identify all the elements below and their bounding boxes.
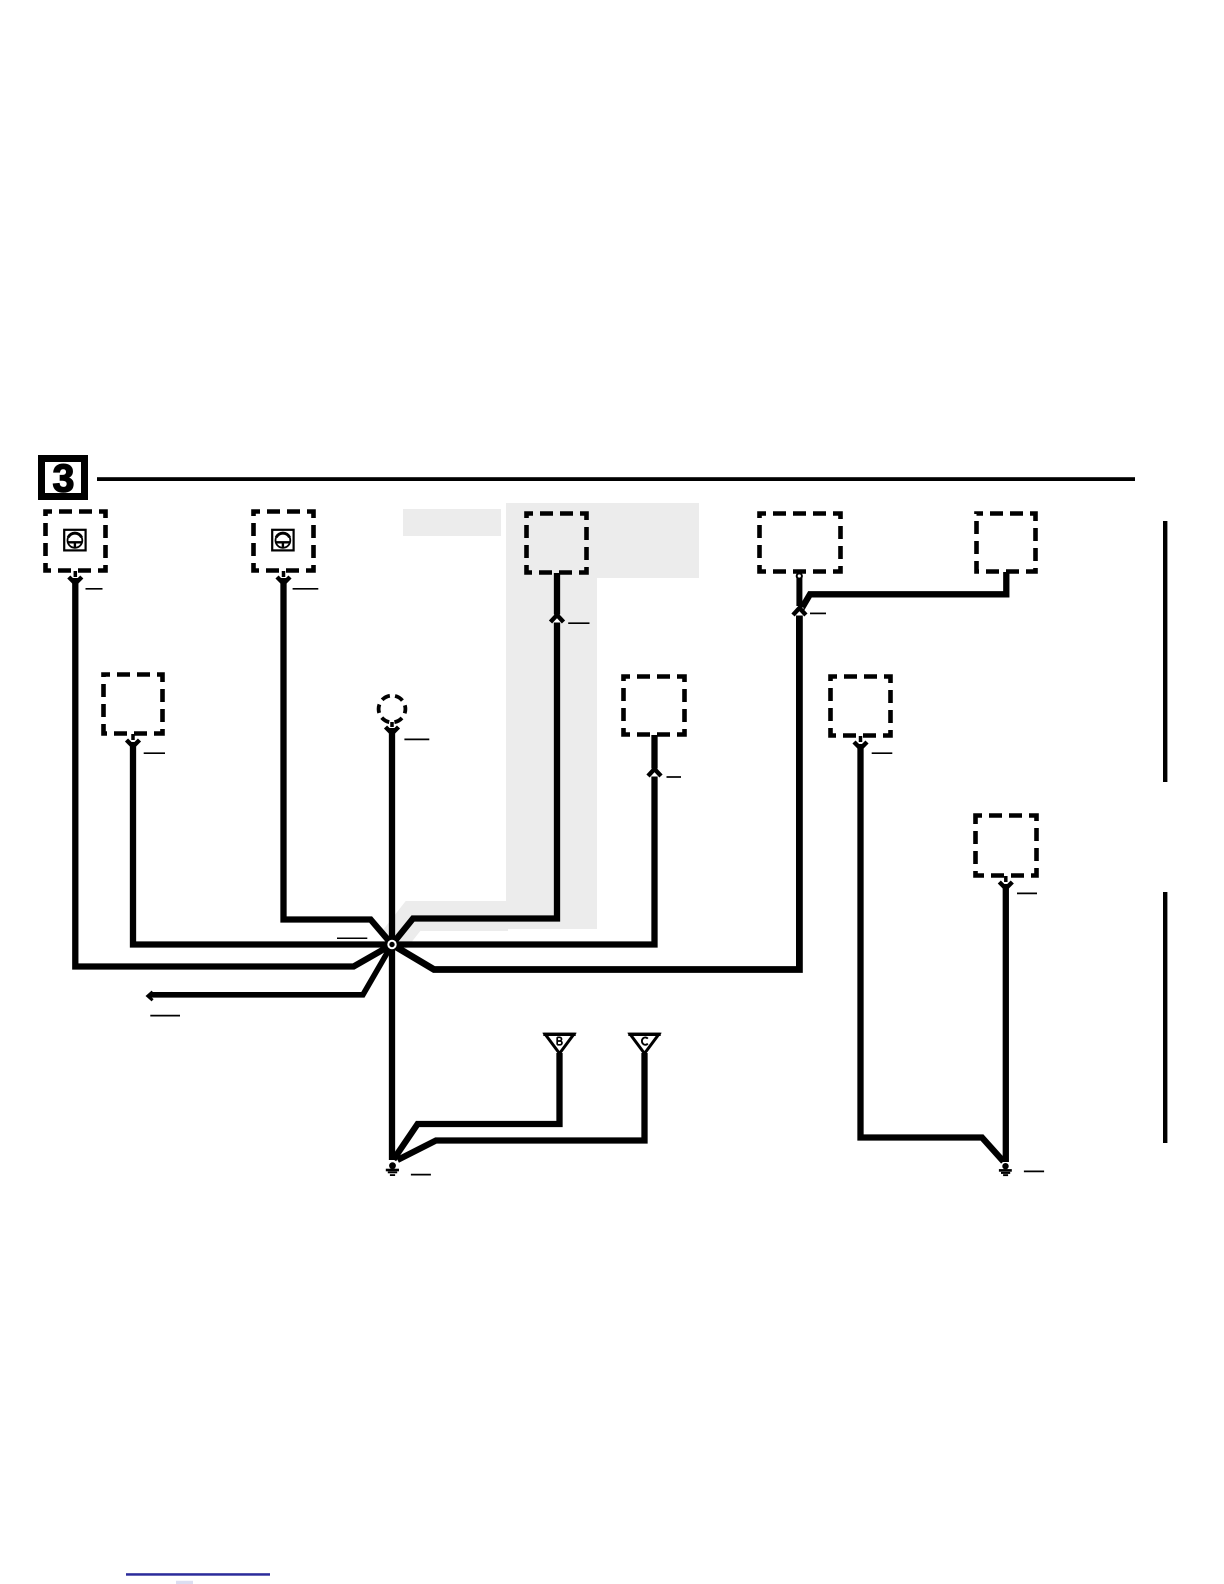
arrow up on wire W7 bbox=[648, 769, 661, 787]
wire W4 from splice S1 up to connector circle bbox=[389, 728, 395, 945]
connector X8 bbox=[831, 677, 891, 736]
wire W1 from connector X1 to splice bbox=[75, 578, 392, 967]
wire label dash at W7 arrow bbox=[667, 776, 682, 778]
wire label dash at X1 bbox=[86, 588, 103, 590]
wire W11 splice to ground G1 bbox=[389, 945, 395, 1161]
wire label dash at circle connector bbox=[404, 738, 429, 740]
wire label dash at ground G2 bbox=[1024, 1170, 1044, 1172]
faint footer text remnant bbox=[176, 1581, 193, 1584]
connector X5 bbox=[977, 514, 1036, 572]
connector X4 bbox=[760, 514, 841, 572]
wire label dash at splice S1 bbox=[337, 937, 367, 939]
connector X1 (steering wheel module) bbox=[46, 512, 106, 571]
page number box 3 bbox=[42, 458, 85, 501]
wire W2 from connector X2 to splice bbox=[284, 578, 393, 945]
wire W6 splice to connector X3 bbox=[392, 573, 557, 945]
section marker bar right bottom bbox=[1163, 892, 1167, 1143]
splice S1 junction dot bbox=[387, 940, 396, 949]
arrow up at node A bbox=[793, 608, 806, 626]
wire W3 from connector X6 to splice bbox=[133, 742, 390, 945]
highlight band (gray watermark path) bbox=[391, 503, 699, 944]
wire W14 connector X8 to ground G2 bbox=[861, 744, 1004, 1162]
arrow up on wire W6 bbox=[551, 615, 564, 633]
footer blue rule bbox=[126, 1573, 270, 1576]
wire W15 connector X9 to ground G2 bbox=[1003, 884, 1009, 1162]
svg-text:3: 3 bbox=[53, 458, 75, 501]
header rule bbox=[97, 477, 1135, 481]
triangle B bbox=[543, 1034, 575, 1053]
wire label dash at X9 bbox=[1017, 892, 1037, 894]
connector X7 bbox=[624, 677, 685, 735]
ground G2 bbox=[999, 1163, 1012, 1176]
wire W5 with left arrow to splice bbox=[150, 945, 392, 995]
connector X2 (steering wheel module) bbox=[254, 512, 314, 571]
wire label dash at ground G1 bbox=[411, 1174, 431, 1176]
triangle C bbox=[628, 1034, 660, 1053]
wire label dash at X2 bbox=[293, 588, 319, 590]
connector X9 bbox=[976, 816, 1037, 876]
arrow down below connector X8 bbox=[854, 736, 867, 749]
arrow down below connector X1 bbox=[69, 571, 82, 584]
wire W13 triangle C to ground G1 bbox=[398, 1053, 645, 1160]
connector X3 bbox=[527, 514, 587, 573]
pin dot at connector X4 bbox=[797, 573, 802, 578]
arrow down below connector X6 bbox=[127, 734, 140, 747]
section marker bar right top bbox=[1163, 521, 1167, 782]
wire W8 splice to node A bbox=[392, 614, 799, 970]
wire W12 triangle B to ground G1 bbox=[394, 1053, 560, 1160]
arrow down below connector X9 bbox=[999, 876, 1012, 889]
wire label dash at X6 bbox=[144, 752, 165, 754]
arrow down below connector X2 bbox=[277, 571, 290, 584]
connector X6 bbox=[104, 675, 163, 734]
wire label dash at W5 arrow bbox=[150, 1015, 180, 1017]
wire W7 splice to connector X7 bbox=[392, 735, 655, 945]
connector circle (bulb socket) bbox=[379, 696, 406, 723]
arrow head left on W5 bbox=[148, 992, 153, 1000]
wire W9 stub from connector X4 bbox=[796, 577, 802, 606]
arrow down below connector circle bbox=[386, 722, 399, 734]
wire W10 from connector X5 to node A bbox=[801, 572, 1007, 611]
wire label dash at X8 bbox=[872, 752, 893, 754]
wire label dash at W6 arrow bbox=[568, 622, 589, 624]
wire label dash at node A bbox=[810, 612, 826, 614]
ground G1 bbox=[386, 1162, 399, 1176]
